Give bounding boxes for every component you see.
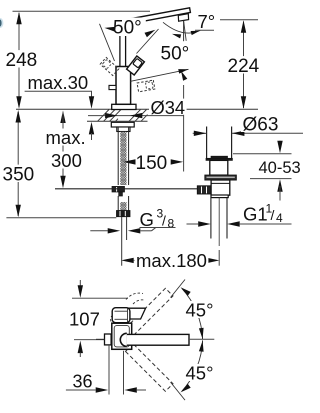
svg-text:150: 150 xyxy=(136,153,168,174)
svg-text:G1: G1 xyxy=(243,204,268,225)
svg-text:36: 36 xyxy=(73,372,93,392)
svg-text:7°: 7° xyxy=(198,11,216,32)
svg-text:G: G xyxy=(140,209,154,230)
svg-text:248: 248 xyxy=(6,50,38,71)
svg-text:350: 350 xyxy=(3,165,35,186)
svg-text:max.: max. xyxy=(46,127,86,148)
svg-text:224: 224 xyxy=(228,56,260,77)
svg-text:/: / xyxy=(271,207,275,223)
svg-text:300: 300 xyxy=(51,150,82,171)
svg-text:8: 8 xyxy=(168,217,175,231)
svg-text:45°: 45° xyxy=(186,300,214,321)
svg-text:/: / xyxy=(162,213,166,229)
svg-text:4: 4 xyxy=(276,211,283,225)
svg-text:50°: 50° xyxy=(113,18,142,39)
svg-text:Ø63: Ø63 xyxy=(243,115,279,136)
svg-text:max.30: max.30 xyxy=(28,72,89,93)
svg-text:max.180: max.180 xyxy=(136,250,207,271)
svg-text:45°: 45° xyxy=(186,363,214,384)
svg-text:Ø34: Ø34 xyxy=(151,97,186,118)
svg-text:40-53: 40-53 xyxy=(259,159,301,177)
svg-text:107: 107 xyxy=(69,309,100,330)
svg-text:50°: 50° xyxy=(161,44,190,65)
